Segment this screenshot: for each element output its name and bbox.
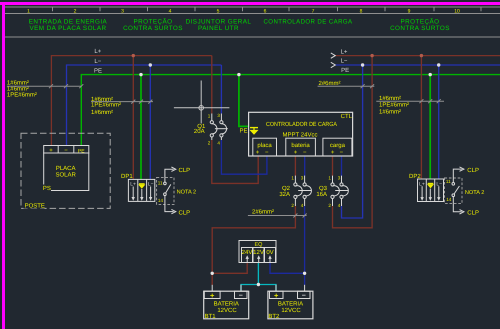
stub battery BT1 minus xyxy=(240,285,242,291)
relay no2 CLP arrow bottom xyxy=(453,203,464,214)
svg-text:CLP: CLP xyxy=(467,210,479,217)
breaker Q3 pin numbers xyxy=(328,176,340,208)
wire EQ 0V xyxy=(270,263,305,274)
svg-text:BT1: BT1 xyxy=(205,313,217,320)
svg-text:1PE#6mm²: 1PE#6mm² xyxy=(91,102,121,109)
stub battery BT1 plus xyxy=(211,285,213,291)
svg-text:MPPT 24Vcc: MPPT 24Vcc xyxy=(283,132,318,139)
wire label group 2 xyxy=(91,96,121,116)
svg-text:L−: L− xyxy=(94,58,101,65)
junction dot L+ carga xyxy=(370,54,373,57)
breaker Q1 pin numbers xyxy=(208,113,221,146)
solar panel terminal strip xyxy=(44,146,89,154)
svg-text:12V: 12V xyxy=(253,249,264,256)
header column numbers xyxy=(27,8,460,14)
junction dot L- DP2 xyxy=(437,63,440,66)
wire Q1 input L- xyxy=(220,65,222,114)
wire carga plus to Q3 xyxy=(332,156,334,176)
DP1 cell labels xyxy=(130,182,153,188)
svg-text:4: 4 xyxy=(301,203,304,208)
relay contact NOTA2 no1 dashed box xyxy=(157,177,174,204)
solar panel text xyxy=(56,165,77,179)
battery BT2 text xyxy=(278,300,303,314)
wire Q1 out to placa minus xyxy=(221,140,267,174)
DP2 down arrows xyxy=(420,186,440,201)
svg-text:2: 2 xyxy=(208,141,211,146)
svg-text:2#6mm²: 2#6mm² xyxy=(252,209,274,216)
svg-text:5: 5 xyxy=(217,8,220,14)
wire bateria plus to Q2 xyxy=(294,156,296,176)
svg-text:NOTA 2: NOTA 2 xyxy=(465,190,484,196)
svg-text:BATERIA: BATERIA xyxy=(278,300,303,307)
svg-text:4: 4 xyxy=(338,203,341,208)
svg-text:bateria: bateria xyxy=(291,142,310,149)
svg-text:1#6mm²: 1#6mm² xyxy=(379,109,401,116)
wire carga minus to Q3 xyxy=(341,156,343,176)
svg-text:6: 6 xyxy=(264,8,267,14)
svg-text:CTL: CTL xyxy=(341,113,353,120)
bus L- right segment xyxy=(335,64,500,66)
svg-text:BT2: BT2 xyxy=(268,313,280,320)
solar panel box PLACA SOLAR xyxy=(44,153,89,191)
wire Q1 out to placa plus xyxy=(212,140,258,183)
svg-text:POSTE: POSTE xyxy=(25,203,45,210)
svg-text:PE: PE xyxy=(94,68,102,75)
breaker Q3 label xyxy=(316,185,327,198)
svg-text:1: 1 xyxy=(291,176,294,181)
leader 2x6mm top xyxy=(318,84,375,88)
svg-text:9: 9 xyxy=(408,8,411,14)
zone title PROTECAO CONTRA SURTOS 2 xyxy=(390,18,450,32)
svg-text:placa: placa xyxy=(257,142,272,149)
equalizer cell labels xyxy=(242,249,274,256)
svg-text:32A: 32A xyxy=(279,191,290,198)
svg-text:11: 11 xyxy=(158,181,163,186)
DP1 arrester symbol xyxy=(139,184,145,188)
header grid line 2 xyxy=(5,13,500,15)
svg-text:1#6mm²: 1#6mm² xyxy=(7,79,29,86)
svg-text:3: 3 xyxy=(301,176,304,181)
equalizer cells xyxy=(242,248,276,263)
breaker Q1 label xyxy=(194,123,206,135)
relay no2 pin numbers xyxy=(446,179,452,202)
svg-text:14: 14 xyxy=(158,198,164,203)
svg-text:20A: 20A xyxy=(194,128,205,135)
controller box U1 xyxy=(249,112,353,156)
svg-text:SOLAR: SOLAR xyxy=(56,172,77,179)
svg-text:10: 10 xyxy=(454,8,460,14)
controller terminal bateria xyxy=(286,138,316,156)
svg-text:L−: L− xyxy=(341,57,348,64)
header grid line 1 xyxy=(5,6,500,8)
svg-text:CONTROLADOR DE CARGA: CONTROLADOR DE CARGA xyxy=(266,121,337,128)
junction dot L+ DP2 xyxy=(420,54,423,57)
svg-text:PE: PE xyxy=(341,67,349,74)
controller polarity marks xyxy=(256,150,344,156)
poste dashed box xyxy=(21,133,110,208)
poste label xyxy=(24,202,45,210)
chevron L- xyxy=(331,62,336,67)
DP2 cell labels xyxy=(419,181,442,187)
leader group 2 xyxy=(91,100,153,104)
wire Q2 out minus to battery xyxy=(304,206,306,285)
junction dot L- carga xyxy=(361,63,364,66)
controller terminal labels xyxy=(257,142,345,149)
svg-text:3: 3 xyxy=(217,113,220,118)
header column ticks xyxy=(53,7,482,11)
svg-text:CLP: CLP xyxy=(467,167,479,174)
svg-text:CONTRA SURTOS: CONTRA SURTOS xyxy=(390,25,450,32)
svg-text:PAINEL UTR: PAINEL UTR xyxy=(198,25,239,32)
svg-text:1: 1 xyxy=(27,8,30,14)
battery BT2 terminals xyxy=(270,291,311,298)
svg-text:1: 1 xyxy=(328,176,331,181)
junction dot L+ DP1 xyxy=(132,54,135,57)
battery BT1 terminals xyxy=(204,291,247,298)
svg-text:L+: L+ xyxy=(94,48,101,55)
svg-text:+: + xyxy=(256,150,260,156)
wire L+ to DP2 xyxy=(420,56,422,179)
junction dot PE controller xyxy=(237,73,240,76)
relay no1 CLP arrow bottom xyxy=(165,204,176,213)
bus PE xyxy=(81,75,500,146)
junction dot L- DP1 xyxy=(149,63,152,66)
breaker Q2 pin numbers xyxy=(291,176,303,208)
svg-text:14: 14 xyxy=(446,197,452,202)
svg-text:1PE#6mm²: 1PE#6mm² xyxy=(379,102,409,109)
border frame magenta left xyxy=(2,2,5,329)
controller terminal placa xyxy=(253,138,277,156)
svg-text:+: + xyxy=(210,291,215,300)
svg-text:16A: 16A xyxy=(316,191,327,198)
bus L+ left segment xyxy=(51,56,211,146)
svg-text:2: 2 xyxy=(74,8,77,14)
svg-text:+: + xyxy=(331,150,335,156)
relay no2 CLP arrow top xyxy=(453,167,464,178)
svg-text:NOTA 2: NOTA 2 xyxy=(177,189,196,195)
equalizer up arrows xyxy=(246,255,272,262)
svg-text:+: + xyxy=(294,150,298,156)
svg-text:CLP: CLP xyxy=(179,167,191,174)
equalizer EQ box xyxy=(239,241,276,263)
svg-text:carga: carga xyxy=(330,143,346,149)
stub battery BT2 minus xyxy=(304,285,306,291)
svg-text:L+: L+ xyxy=(341,48,348,55)
svg-text:−: − xyxy=(303,150,307,156)
svg-text:0V: 0V xyxy=(266,249,273,256)
svg-text:4: 4 xyxy=(217,141,220,146)
svg-text:8: 8 xyxy=(360,8,363,14)
svg-text:PS: PS xyxy=(43,185,51,192)
zone title PROTECAO CONTRA SURTOS xyxy=(123,18,183,32)
svg-text:12VCC: 12VCC xyxy=(281,307,301,314)
bus L- left segment xyxy=(67,65,222,146)
leader group 4 xyxy=(376,99,444,103)
svg-text:PE: PE xyxy=(240,127,248,134)
wire L- to DP1 xyxy=(149,65,151,179)
wire EQ 24V xyxy=(212,263,247,274)
svg-text:PLACA: PLACA xyxy=(56,165,76,172)
crosshair cursor xyxy=(174,81,230,124)
DP2 arrester symbol xyxy=(428,183,434,187)
breaker Q2 label xyxy=(279,185,290,198)
DP1 down arrows xyxy=(132,187,153,201)
wire PE to controller xyxy=(239,75,249,127)
leader group 1 xyxy=(7,84,83,88)
svg-text:11: 11 xyxy=(446,179,451,184)
wire EQ 12V cyan xyxy=(257,263,259,285)
svg-text:1PE#6mm²: 1PE#6mm² xyxy=(7,92,37,99)
leader 2x6mm bottom xyxy=(248,214,307,218)
svg-text:−: − xyxy=(340,150,344,156)
surge device DP2 box xyxy=(418,179,444,202)
chevron L+ xyxy=(331,53,336,58)
zone title DISJUNTOR GERAL PAINEL UTR xyxy=(186,19,252,32)
svg-text:CONTROLADOR DE CARGA: CONTROLADOR DE CARGA xyxy=(264,19,353,26)
relay contact NOTA2 no2 dashed box xyxy=(445,178,463,203)
svg-text:+: + xyxy=(274,291,279,300)
surge device DP1 box xyxy=(128,179,154,201)
svg-text:3: 3 xyxy=(338,176,341,181)
svg-text:CLP: CLP xyxy=(179,209,191,216)
relay contact no1 xyxy=(164,177,171,204)
junction dot battery mid xyxy=(257,283,260,286)
svg-text:CONTRA SURTOS: CONTRA SURTOS xyxy=(123,25,183,32)
svg-text:3: 3 xyxy=(121,8,124,14)
battery BT2 box xyxy=(268,291,313,319)
svg-text:1: 1 xyxy=(208,113,211,118)
junction dot battery plus xyxy=(211,272,214,275)
zone title ENTRADA DE ENERGIA xyxy=(29,19,108,32)
wire Q3 out plus to L+ xyxy=(333,56,373,228)
wire PE to DP2 xyxy=(429,75,431,179)
junction dot PE DP2 xyxy=(429,73,432,76)
relay no1 CLP arrow top xyxy=(165,167,176,177)
svg-text:1#6mm²: 1#6mm² xyxy=(91,109,113,116)
svg-text:BATERIA: BATERIA xyxy=(214,300,239,307)
breaker Q1 xyxy=(210,114,228,141)
svg-text:−: − xyxy=(302,292,306,299)
battery BT1 text xyxy=(214,300,239,314)
wire battery mid cyan xyxy=(241,285,276,292)
junction dot PE DP1 xyxy=(139,73,142,76)
wire label group 1 xyxy=(7,79,37,98)
wire L+ to DP1 xyxy=(132,56,134,180)
stub battery BT2 plus xyxy=(275,285,277,291)
svg-text:7: 7 xyxy=(312,8,315,14)
battery BT1 box xyxy=(204,291,249,319)
svg-text:VEM DA PLACA SOLAR: VEM DA PLACA SOLAR xyxy=(29,25,106,32)
wire Q2 out plus to battery xyxy=(212,206,295,285)
wire label group 4 xyxy=(379,95,409,116)
breaker Q3 xyxy=(331,176,348,206)
relay contact no2 xyxy=(452,178,459,203)
junction dot battery minus xyxy=(303,272,306,275)
controller terminal carga xyxy=(323,138,352,156)
wire L- to DP2 xyxy=(438,65,440,179)
header grid line 3 xyxy=(5,36,500,38)
wire bateria minus to Q2 xyxy=(304,156,306,176)
relay no1 pin numbers xyxy=(158,181,164,203)
svg-text:24V: 24V xyxy=(242,249,253,256)
wire Q1 input L+ xyxy=(211,56,213,114)
solar panel terminal labels xyxy=(49,148,85,154)
svg-text:4: 4 xyxy=(169,8,172,14)
svg-text:−: − xyxy=(265,150,269,156)
solar panel PS label xyxy=(42,185,51,193)
wire Q3 out minus to L- xyxy=(342,65,363,218)
wire PE to DP1 xyxy=(140,75,142,180)
controller PE arrester arrow xyxy=(250,128,258,134)
bus L+ right segment xyxy=(335,55,500,57)
breaker Q2 xyxy=(294,176,312,206)
svg-text:2: 2 xyxy=(291,203,294,208)
svg-text:2: 2 xyxy=(328,203,331,208)
border frame magenta top xyxy=(0,2,500,5)
svg-text:−: − xyxy=(239,292,243,299)
svg-text:12VCC: 12VCC xyxy=(217,307,237,314)
